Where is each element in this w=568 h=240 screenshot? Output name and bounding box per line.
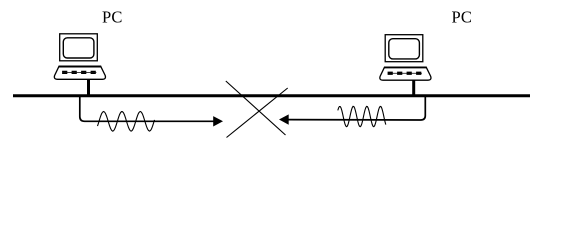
monitor screen [63,38,94,58]
bus wire (shared medium) [13,94,530,97]
keyboard top edge [384,66,427,68]
label PC (left) [102,7,123,26]
key dashes [62,70,96,72]
drop wire PC2 to bus [412,80,415,95]
monitor screen [389,39,420,59]
signal arrow from PC1 (tap + shaft + head) [80,97,223,127]
computer PC1 (left laptop icon) [54,34,105,80]
keyboard body [54,66,105,79]
signal arrow from PC2 (tap + shaft + head) [279,97,425,125]
keyboard top edge [59,66,102,68]
label PC (right) [452,7,473,26]
key dashes [388,71,422,73]
computer PC2 (right laptop icon) [380,35,431,81]
sine wave on right signal [338,106,386,126]
sine wave on left signal [98,112,155,132]
monitor outer [385,35,423,62]
monitor outer [60,34,98,61]
drop wire PC1 to bus [87,80,90,96]
keyboard body [380,67,431,80]
svg-text:PC: PC [452,7,473,26]
svg-text:PC: PC [102,7,123,26]
collision X mark [226,81,288,138]
